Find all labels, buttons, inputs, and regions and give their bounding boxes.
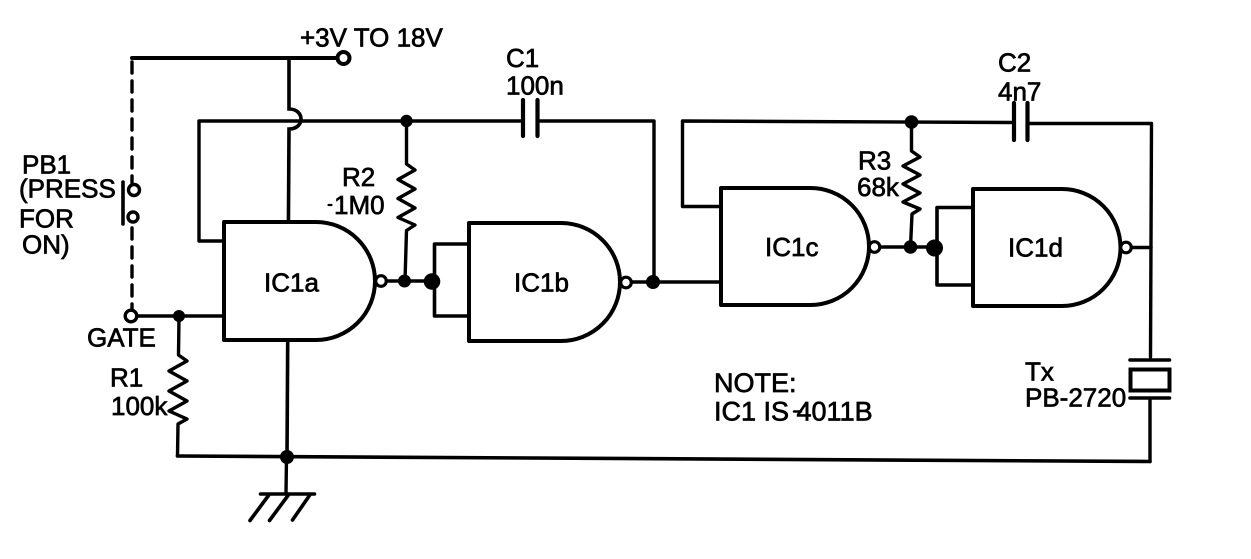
svg-text:1M0: 1M0 [334, 190, 385, 220]
wire: IC1b output to IC1c lower input [632, 280, 722, 283]
svg-text:68k: 68k [857, 172, 900, 202]
wire: IC1b tied inputs [435, 244, 470, 316]
svg-text:100k: 100k [111, 391, 168, 421]
terminal: +3V supply [338, 52, 350, 64]
ground [284, 457, 288, 493]
svg-text:GATE: GATE [87, 323, 156, 353]
svg-text:ON): ON) [22, 230, 70, 260]
NAND gate IC1b [469, 223, 620, 341]
wire: feedback from IC1a input up and right to C1 [199, 121, 521, 241]
svg-text:IC1a: IC1a [264, 268, 319, 298]
wire: IC1c output [880, 245, 937, 248]
transducer Tx body [1131, 370, 1170, 391]
junction: IC1b out / C1 loop [646, 275, 660, 289]
artifact dash in note [794, 410, 801, 413]
resistor R2 [398, 121, 415, 281]
inversion bubble IC1d [1121, 242, 1132, 253]
NAND gate IC1c [721, 188, 869, 305]
inversion bubble IC1c [869, 242, 880, 253]
capacitor C2 [1012, 103, 1016, 140]
wire: IC1d output [1132, 246, 1152, 249]
pushbutton PB1 contact top [129, 185, 140, 196]
wire: IC1d tied inputs [937, 208, 973, 286]
wire: C2 right plate to IC1d output / Tx [1030, 124, 1152, 358]
svg-text:4n7: 4n7 [998, 77, 1041, 107]
resistor R3 [903, 122, 920, 247]
transducer Tx bottom plate [1130, 396, 1170, 400]
svg-text:R2: R2 [342, 162, 375, 192]
wire: ground rail [178, 456, 1151, 462]
svg-text:C2: C2 [998, 48, 1031, 78]
svg-text:R3: R3 [858, 146, 891, 176]
wire: C1 right plate to IC1b output [540, 121, 654, 282]
terminal: GATE [125, 310, 137, 322]
svg-text:100n: 100n [506, 71, 564, 101]
NAND gate IC1d [973, 189, 1121, 306]
junction: GATE / R1 [173, 310, 185, 322]
svg-text:IC1b: IC1b [514, 268, 569, 298]
svg-text:(PRESS: (PRESS [19, 174, 116, 204]
wire: Tx to ground rail [1148, 400, 1151, 462]
svg-text:+3V TO 18V: +3V TO 18V [300, 23, 444, 53]
resistor R1 [169, 316, 187, 456]
pushbutton PB1 actuator bar [121, 182, 125, 224]
wire: PB1 dashed link lower [130, 228, 133, 309]
junction: ground rail / VDD return [280, 450, 294, 464]
pushbutton PB1 contact bottom [128, 212, 138, 222]
junction: IC1c out / R3 bottom [904, 240, 918, 254]
svg-text:NOTE:: NOTE: [714, 368, 797, 398]
junction: IC1a out / R2 bottom [398, 275, 411, 288]
wire: IC1a output [387, 279, 436, 282]
svg-text:IC1d: IC1d [1008, 233, 1063, 263]
junction: IC1d input tie [926, 240, 943, 257]
svg-text:IC1c: IC1c [765, 232, 818, 262]
svg-text:C1: C1 [506, 43, 539, 73]
inversion bubble IC1a [376, 276, 387, 287]
wire: +3V supply rail [132, 56, 337, 60]
junction: R2 top [400, 115, 412, 127]
junction: IC1b input tie [424, 273, 441, 290]
artifact dash before 1M0 [329, 204, 332, 206]
junction: R3 top [905, 115, 919, 129]
wire: gate input to IC1a [137, 314, 224, 317]
svg-text:R1: R1 [110, 363, 143, 393]
transducer Tx top plate [1130, 358, 1170, 362]
svg-text:PB-2720: PB-2720 [1025, 383, 1126, 413]
wire: feedback from IC1c input up and right to C2 [683, 121, 1012, 207]
NAND gate IC1a [224, 222, 375, 340]
inversion bubble IC1b [621, 277, 632, 288]
wire: VDD vertical (hops over feedback wire, passes behind IC1a to ground rail) [287, 58, 301, 457]
capacitor C1 [521, 100, 525, 136]
wire: PB1 dashed link upper [130, 62, 133, 183]
